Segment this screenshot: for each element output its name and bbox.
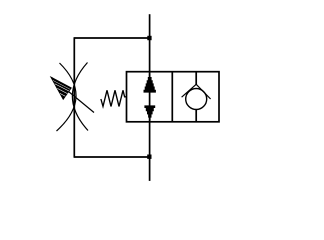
check valve seat bbox=[182, 84, 211, 99]
wire: upper supply line bbox=[149, 14, 151, 72]
node: top junction dot bbox=[147, 36, 151, 40]
throttle adjustment arrowhead (hatched) bbox=[51, 77, 71, 99]
flow arrow down (stepped) bbox=[144, 105, 155, 120]
check valve inlet line bbox=[195, 72, 197, 85]
throttle adjustment arrow shaft bbox=[51, 77, 94, 112]
spring bbox=[101, 90, 127, 106]
wire: bypass top horizontal bbox=[74, 37, 149, 39]
left cell flow line bbox=[149, 72, 151, 122]
wire: bypass left vertical bbox=[73, 37, 75, 157]
check valve ball bbox=[186, 89, 207, 110]
node: bottom junction dot bbox=[147, 155, 151, 159]
wire: bypass bottom horizontal bbox=[74, 156, 149, 158]
wire: lower line bbox=[149, 122, 151, 181]
check valve outlet line bbox=[195, 110, 197, 122]
valve body outline bbox=[127, 72, 220, 122]
valve body divider bbox=[171, 72, 173, 122]
throttle: restriction arcs bbox=[57, 63, 89, 132]
flow arrow up (stepped) bbox=[144, 74, 156, 93]
